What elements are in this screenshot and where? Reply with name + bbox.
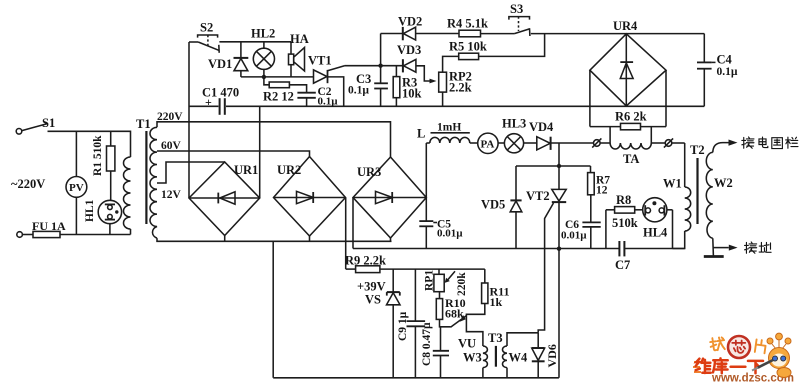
svg-text:UR3: UR3 [357, 165, 381, 179]
capacitor C1 [220, 98, 225, 115]
svg-text:220k: 220k [456, 272, 468, 296]
voltmeter PV [66, 131, 87, 234]
svg-text:0.01µ: 0.01µ [437, 228, 463, 240]
svg-text:1k: 1k [490, 295, 503, 309]
transformer T1 core [145, 131, 147, 224]
resistor R2 [264, 77, 307, 93]
neon lamp HL1 [98, 200, 121, 234]
svg-text:12V: 12V [161, 189, 182, 201]
svg-text:W2: W2 [714, 176, 733, 190]
node junction VT1-VD2-VD3-C3 [378, 63, 382, 67]
transformer T1 primary winding [124, 157, 131, 229]
wire UR3 right vertex vertical to main row [425, 143, 427, 221]
svg-text:R4 5.1k: R4 5.1k [447, 17, 488, 31]
resistor R9 [346, 266, 485, 273]
wire VD5-VT2-R7 row [516, 165, 591, 167]
transistor VU [451, 315, 467, 327]
label jie-dian-wei-lan fence (vector glyphs) [742, 137, 798, 149]
fuse FU 1A [17, 231, 131, 237]
svg-text:FU 1A: FU 1A [32, 219, 66, 233]
svg-text:RP1: RP1 [424, 270, 436, 291]
svg-text:T2: T2 [690, 143, 705, 157]
diode VD5 [510, 166, 522, 249]
svg-text:+39V: +39V [357, 280, 386, 294]
svg-text:T3: T3 [488, 331, 503, 345]
svg-text:VD5: VD5 [481, 198, 505, 212]
svg-text:510k: 510k [612, 216, 638, 230]
svg-text:R5 10k: R5 10k [449, 40, 487, 54]
watermark speed lines [694, 361, 701, 363]
wire S1 row to T1 primary top [130, 131, 131, 157]
svg-text:TA: TA [623, 152, 639, 166]
wire T1 primary bottom [130, 229, 132, 235]
node junction VT2 anode row [557, 164, 561, 168]
svg-text:12: 12 [596, 185, 608, 197]
resistor R5 [459, 34, 545, 60]
wire top bus left part [189, 105, 219, 107]
svg-text:UR2: UR2 [277, 163, 301, 177]
capacitor C8 [433, 327, 449, 378]
svg-text:HL1: HL1 [84, 199, 96, 222]
node junction HL2-R2 [262, 75, 266, 79]
capacitor C7 [619, 241, 624, 256]
lamp HL3 [498, 134, 523, 153]
svg-text:VT1: VT1 [308, 54, 332, 68]
svg-text:UR4: UR4 [613, 19, 638, 33]
buzzer HA [289, 42, 305, 77]
switch S1 [16, 124, 129, 135]
wire 220V tap row [157, 122, 391, 157]
svg-text:L: L [417, 127, 425, 141]
wire UR2 right vertex down to R9 row [345, 198, 347, 270]
label jie-di ground (vector glyphs) [745, 242, 772, 253]
bridge rectifier UR4 [590, 34, 666, 106]
transformer T2 winding W2 [706, 140, 737, 239]
svg-text:VD4: VD4 [529, 120, 554, 134]
svg-text:~220V: ~220V [11, 177, 45, 191]
thyristor VT2 [538, 166, 566, 333]
wire UR4 left vertex drop [589, 70, 591, 126]
wire junction vertical up to VD2 row [380, 34, 382, 66]
capacitor C9 [407, 269, 426, 378]
svg-text:S2: S2 [200, 21, 213, 35]
svg-text:C8 0.47µ: C8 0.47µ [421, 322, 433, 366]
wire UR1 right vertex up to top bus [259, 106, 261, 198]
svg-text:R9 2.2k: R9 2.2k [345, 254, 386, 268]
svg-text:R8: R8 [616, 193, 631, 207]
svg-text:+: + [205, 95, 212, 109]
resistor R8 [606, 207, 643, 249]
wire main bus drop to bottom rail [272, 241, 274, 377]
transformer T3 winding W4 [503, 333, 539, 378]
wire S2 left vertical down to UR1 left vertex [188, 42, 190, 198]
resistor R1 [107, 131, 115, 200]
svg-text:C9 1µ: C9 1µ [397, 311, 409, 341]
svg-text:VD6: VD6 [545, 344, 559, 367]
terminal gap left [592, 138, 610, 147]
svg-text:0.01µ: 0.01µ [561, 230, 587, 242]
svg-text:2.2k: 2.2k [449, 81, 472, 95]
svg-text:HL4: HL4 [643, 226, 668, 240]
resistor R10 [436, 292, 450, 327]
wire VT2 anode drop from main row [558, 143, 560, 166]
svg-text:VD3: VD3 [397, 43, 421, 57]
capacitor C2 [297, 93, 315, 107]
svg-text:S1: S1 [42, 116, 55, 130]
svg-text:T1: T1 [136, 117, 151, 131]
diode VD1 [234, 42, 249, 77]
transistor VT1 [314, 66, 381, 107]
wire bottom rail [273, 377, 559, 379]
wire lower bus right of C7 [625, 248, 685, 250]
svg-text:PV: PV [69, 182, 84, 194]
diode VD3 [381, 59, 437, 83]
svg-text:68k: 68k [445, 307, 464, 321]
wire T1 secondary bottom to main bus [157, 238, 392, 241]
resistor R4 [459, 30, 514, 37]
neon lamp HL4 [643, 198, 673, 249]
wire VT1 anode row [241, 76, 314, 78]
ground [704, 245, 738, 257]
node junction VT2 cathode bus [557, 247, 561, 251]
wire W2 bottom to ground [712, 238, 715, 256]
potentiometer RP1 [434, 269, 455, 292]
svg-text:C4: C4 [717, 53, 733, 67]
svg-text:W1: W1 [663, 177, 682, 191]
wire 60V tap row [157, 151, 310, 157]
resistor R6 [590, 123, 666, 129]
wire VT2 cathode down to bottom rail [558, 249, 560, 378]
wire TA left drop [609, 127, 611, 143]
capacitor C6 [582, 222, 600, 248]
capacitor C5 [419, 221, 437, 248]
transformer T1 secondary winding [150, 127, 157, 238]
transformer T2 winding W1 [673, 143, 691, 249]
wire top bus right part [226, 105, 704, 107]
svg-text:HA: HA [290, 32, 309, 46]
resistor R11 [466, 269, 488, 346]
bridge rectifier UR2 [274, 157, 346, 242]
svg-text:W4: W4 [509, 351, 529, 365]
svg-text:VS: VS [365, 293, 381, 307]
lamp HL2 [253, 42, 274, 77]
terminal gap right [651, 138, 684, 147]
svg-text:VU: VU [458, 337, 476, 351]
svg-text:60V: 60V [161, 140, 182, 152]
svg-text:VT2: VT2 [526, 189, 550, 203]
svg-text:R1 510k: R1 510k [92, 135, 104, 176]
potentiometer RP2 [439, 56, 459, 106]
capacitor C4 [697, 34, 716, 107]
svg-text:W3: W3 [463, 351, 482, 365]
bridge rectifier UR1 [189, 162, 260, 241]
ammeter PA [470, 133, 498, 153]
svg-text:C7: C7 [615, 258, 630, 272]
svg-text:PA: PA [481, 139, 495, 151]
svg-text:VD1: VD1 [208, 57, 232, 71]
watermark weikuyixia text [696, 358, 763, 373]
resistor R3 [393, 66, 400, 107]
svg-text:1mH: 1mH [437, 122, 461, 134]
switch S2 [189, 35, 291, 53]
transformer T3 winding W3 [483, 346, 488, 378]
transformer T3 core [495, 346, 497, 367]
svg-text:UR1: UR1 [234, 163, 258, 177]
resistor R7 [588, 166, 595, 222]
current transformer TA winding [610, 143, 651, 149]
svg-text:S3: S3 [510, 2, 523, 16]
switch S3 [509, 17, 704, 36]
diode VD4 [524, 137, 594, 150]
wire 12V tap jog [157, 162, 225, 183]
svg-text:VD2: VD2 [398, 15, 422, 29]
svg-text:0.1µ: 0.1µ [318, 96, 339, 108]
wire UR4 right vertex drop [665, 70, 667, 126]
svg-text:HL3: HL3 [502, 117, 526, 131]
diode VD2 [381, 27, 459, 40]
bridge rectifier UR3 [353, 157, 426, 241]
svg-text:10k: 10k [402, 87, 422, 101]
watermark mascot [752, 333, 791, 377]
svg-text:R2 12: R2 12 [263, 90, 294, 104]
svg-text:0.1µ: 0.1µ [717, 66, 738, 78]
svg-text:HL2: HL2 [251, 27, 275, 41]
transformer T2 core [696, 158, 698, 224]
watermark magnifier circle [728, 336, 750, 358]
svg-text:R6 2k: R6 2k [615, 110, 647, 124]
watermark pian char [755, 339, 766, 353]
zener diode VS [387, 269, 401, 378]
diode VD6 [532, 333, 545, 378]
capacitor C3 [374, 66, 388, 107]
watermark xin char [732, 341, 745, 353]
svg-text:0.1µ: 0.1µ [348, 85, 369, 97]
inductor L 1mH [426, 133, 470, 143]
wire TA right drop [650, 127, 652, 143]
watermark logo [693, 333, 794, 383]
wire UR3 left vertex down to lower bus [352, 198, 354, 249]
wire lower bus left of C7 [353, 248, 619, 250]
svg-text:220V: 220V [157, 111, 183, 123]
watermark zhao char [710, 337, 726, 351]
